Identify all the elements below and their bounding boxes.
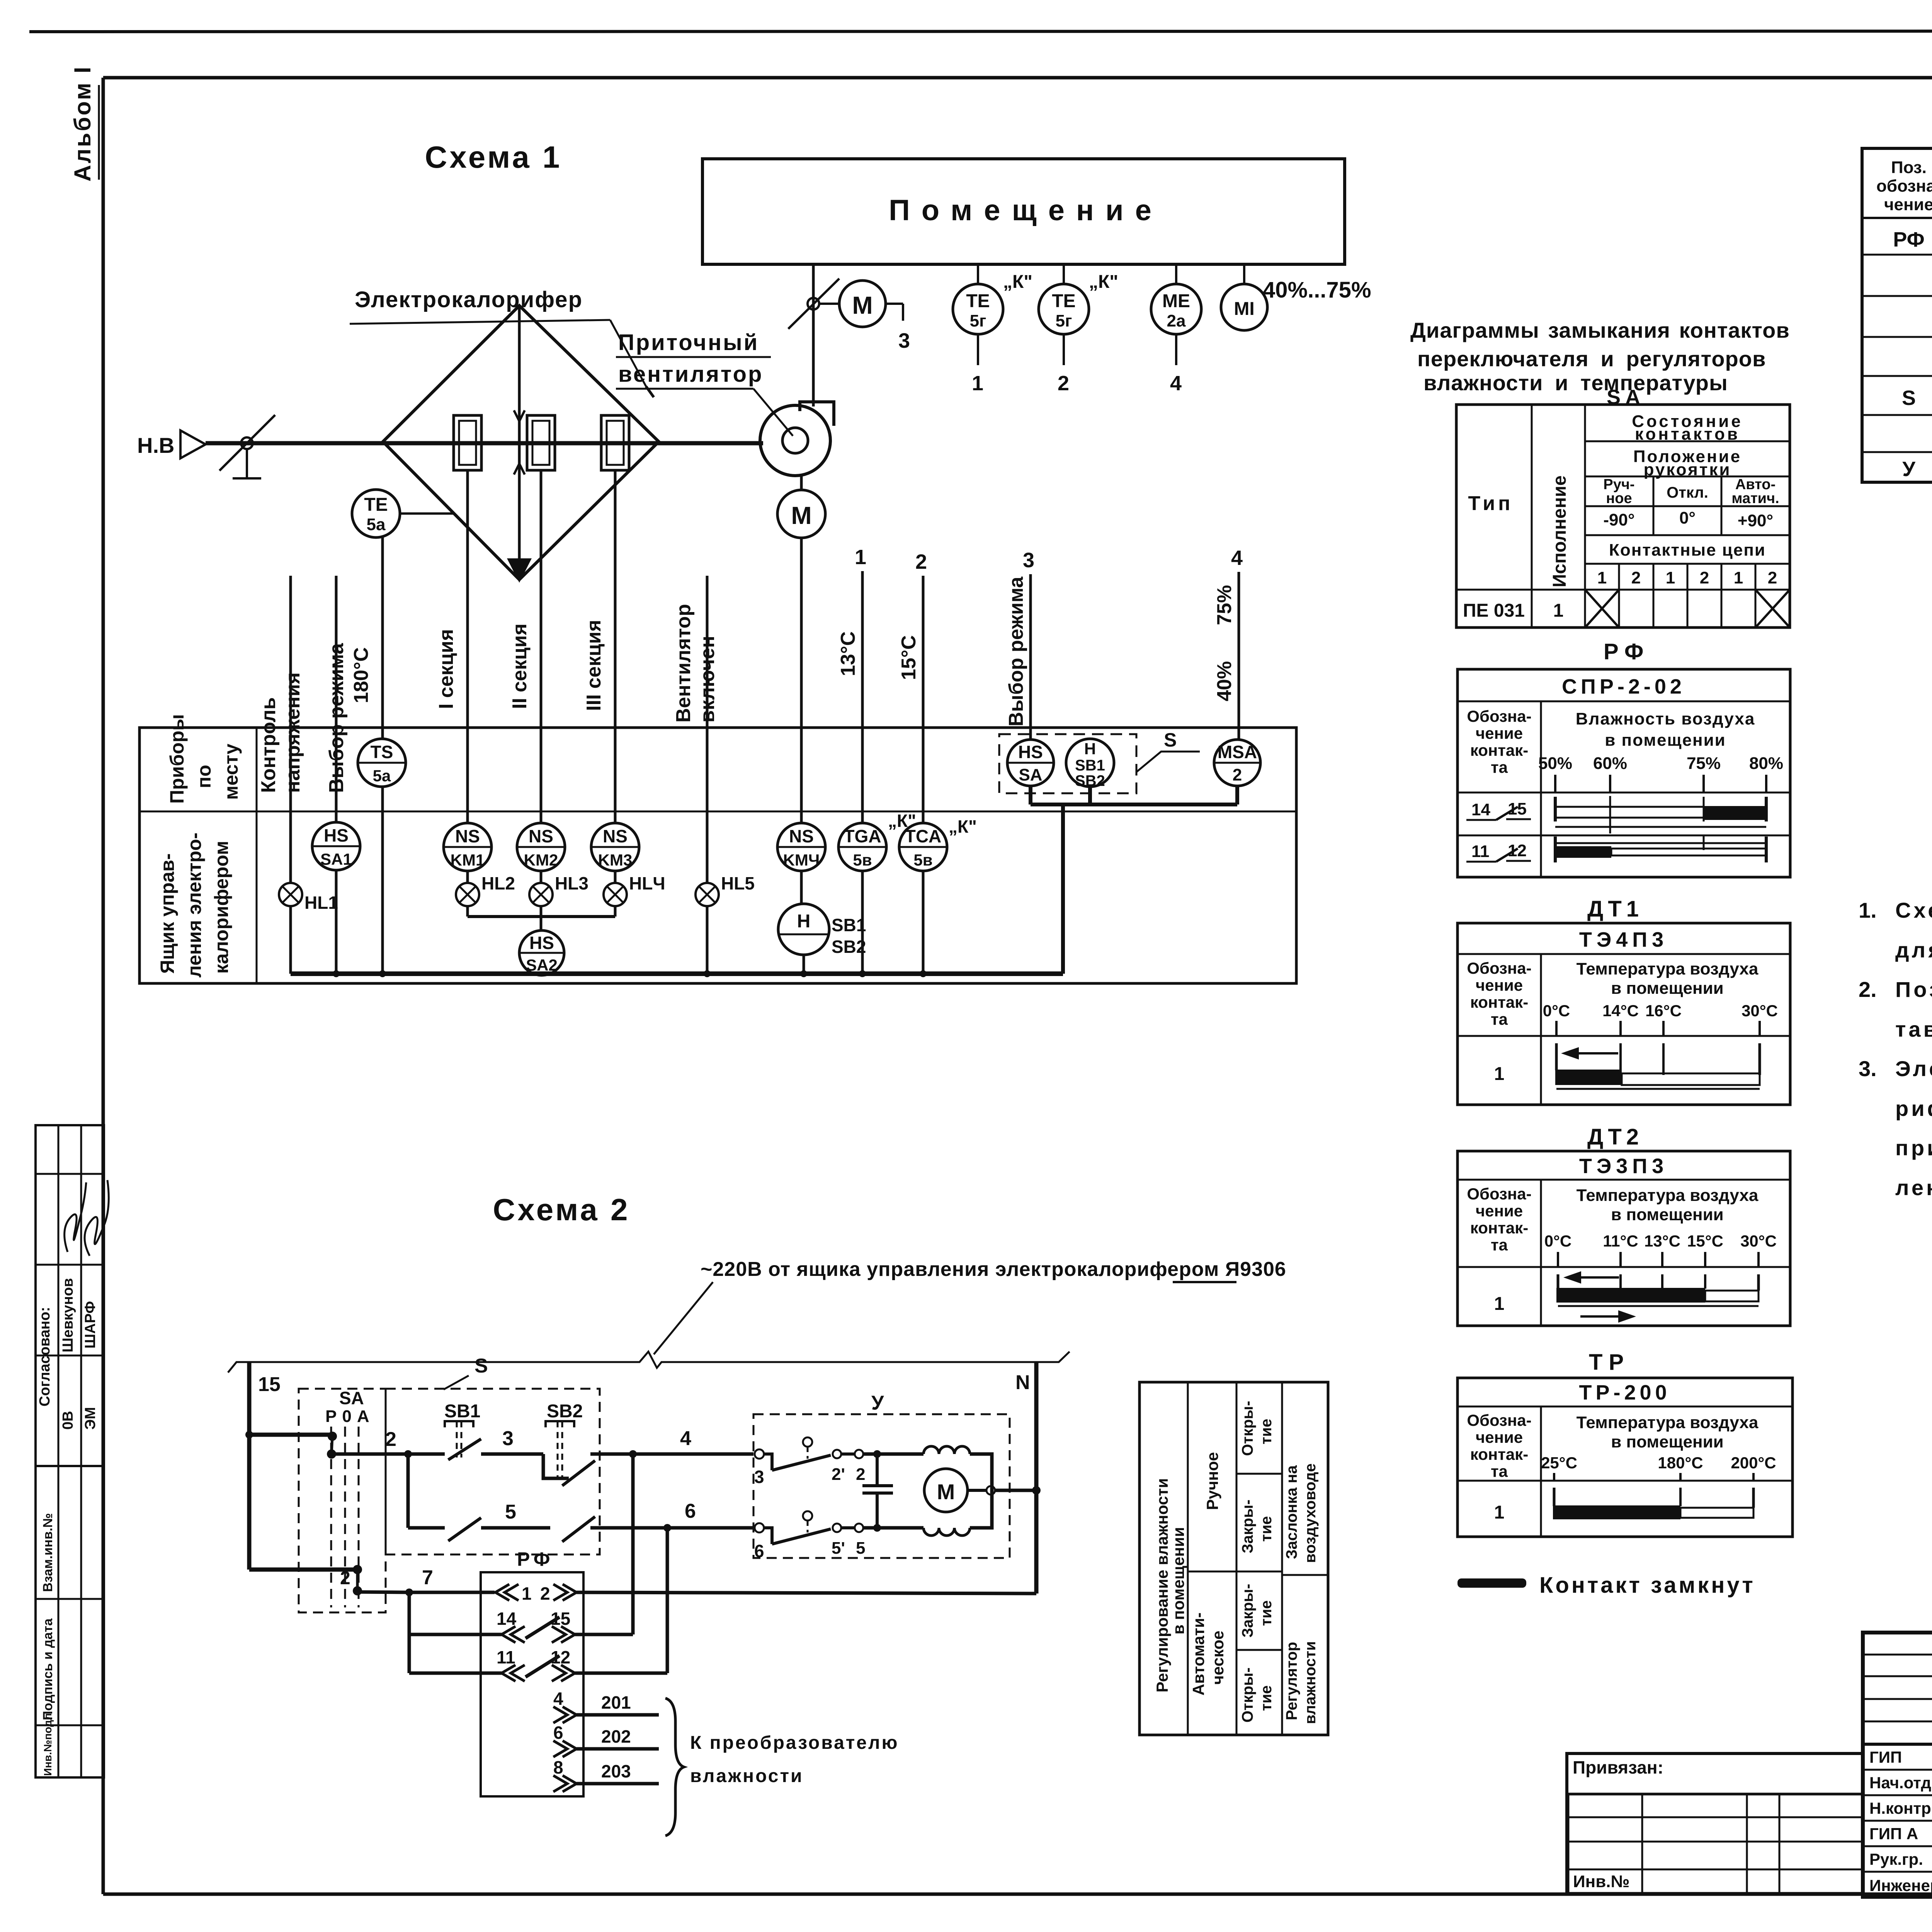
lamp HL3 [529, 873, 588, 917]
svg-text:М: М [791, 502, 811, 529]
svg-text:180°С: 180°С [1658, 1454, 1703, 1472]
lamp HL4 [604, 873, 665, 917]
svg-text:Схема 1: Схема 1 [425, 140, 562, 174]
supply fan [760, 402, 834, 476]
parts row S [1902, 386, 1932, 410]
svg-text:1: 1 [1597, 568, 1607, 587]
svg-text:5г: 5г [1056, 311, 1072, 330]
svg-text:4: 4 [553, 1689, 563, 1709]
lamp HL1 [279, 883, 338, 974]
room indicator MI [1221, 264, 1371, 330]
svg-text:6: 6 [754, 1541, 764, 1561]
svg-text:Температура воздуха: Температура воздуха [1577, 1186, 1759, 1205]
svg-text:ГИП: ГИП [1869, 1748, 1902, 1766]
svg-text:2: 2 [540, 1583, 550, 1604]
svg-text:SA: SA [339, 1388, 364, 1408]
svg-text:MSA: MSA [1218, 742, 1257, 762]
У lower limit contact 6-5'-5 [754, 1511, 923, 1561]
svg-text:Температура воздуха: Температура воздуха [1577, 959, 1759, 978]
actuator motor windings [923, 1446, 992, 1536]
svg-text:3: 3 [502, 1427, 514, 1450]
svg-text:0°С: 0°С [1544, 1232, 1572, 1250]
svg-text:влажности: влажности [1302, 1641, 1319, 1724]
svg-text:Выбор режима: Выбор режима [325, 643, 348, 793]
svg-text:переключателя и регуляторов: переключателя и регуляторов [1417, 347, 1766, 371]
svg-text:14: 14 [497, 1609, 517, 1629]
svg-text:1: 1 [1494, 1064, 1505, 1084]
svg-text:HL2: HL2 [481, 873, 515, 893]
lamp HL5 [696, 873, 755, 974]
wire 3 / Выбор режима (right) [1005, 549, 1034, 740]
svg-text:2: 2 [1631, 568, 1641, 587]
table row label Приборы по месту [166, 714, 242, 804]
svg-text:S: S [1164, 729, 1177, 751]
svg-text:Автомати-: Автомати- [1189, 1612, 1207, 1696]
wire Контроль напряжения column [257, 576, 304, 883]
svg-text:203: 203 [601, 1761, 631, 1781]
SA pole 2 contact [340, 1565, 409, 1595]
contactor NS KM4 [777, 823, 825, 904]
notes text [1859, 898, 1932, 1200]
svg-text:II секция: II секция [509, 624, 531, 709]
svg-text:Тип: Тип [1468, 492, 1513, 515]
svg-text:Электрокалорифер: Электрокалорифер [355, 287, 583, 312]
switch HS SA2 [519, 917, 564, 975]
svg-text:Контакт замкнут: Контакт замкнут [1539, 1573, 1755, 1598]
svg-text:Схемы 1, 2 выполнены в общем в: Схемы 1, 2 выполнены в общем виде и прим… [1895, 898, 1932, 922]
pushbutton H SB1 SB2 (field) [1066, 739, 1114, 789]
svg-text:5г: 5г [970, 311, 986, 330]
svg-text:1: 1 [1494, 1502, 1505, 1523]
svg-text:Закры-: Закры- [1239, 1500, 1256, 1553]
parts list table [1862, 148, 1932, 482]
inlet damper on duct [219, 415, 275, 478]
svg-text:HL3: HL3 [555, 873, 588, 893]
svg-text:Контроль: Контроль [257, 697, 280, 793]
svg-text:12: 12 [551, 1647, 570, 1667]
svg-text:SA: SA [1019, 765, 1042, 784]
room sensor ME 2a [1151, 264, 1201, 395]
svg-text:25°С: 25°С [1541, 1454, 1577, 1472]
label Электрокалорифер with leader [350, 287, 654, 397]
svg-text:Вентилятор: Вентилятор [672, 604, 695, 723]
svg-text:Откл.: Откл. [1667, 484, 1708, 501]
svg-text:SB2: SB2 [832, 937, 866, 957]
svg-text:Ящик управ-: Ящик управ- [156, 853, 178, 974]
svg-text:3: 3 [1023, 549, 1034, 572]
label 220V supply [654, 1258, 1286, 1354]
wire fan motor to NS KM4 [800, 538, 803, 823]
wire 180°C column [350, 537, 383, 739]
room sensor TE 5г (2) [1039, 264, 1118, 395]
svg-text:1: 1 [972, 372, 983, 395]
svg-text:Исполнение: Исполнение [1549, 475, 1570, 587]
heater section I element [454, 415, 481, 470]
svg-text:S: S [1902, 386, 1916, 410]
svg-text:60%: 60% [1593, 754, 1627, 773]
svg-text:15°С: 15°С [898, 635, 920, 680]
svg-text:4: 4 [680, 1427, 691, 1450]
pushbutton H SB1 SB2 (cabinet) [778, 904, 866, 974]
svg-text:Согласовано:: Согласовано: [37, 1307, 53, 1406]
svg-text:0°: 0° [1679, 509, 1696, 527]
node 2 wire [332, 1428, 445, 1458]
svg-text:~220В от ящика управления элек: ~220В от ящика управления электрокалориф… [701, 1258, 1286, 1281]
svg-text:ТР: ТР [1589, 1350, 1630, 1375]
svg-text:2.: 2. [1859, 977, 1877, 1002]
svg-text:3: 3 [898, 329, 910, 352]
S dashed box [386, 1355, 600, 1554]
svg-text:HL5: HL5 [721, 873, 755, 893]
svg-text:75%: 75% [1213, 585, 1236, 625]
svg-text:РФ: РФ [1893, 228, 1924, 251]
svg-text:13°С: 13°С [1644, 1232, 1680, 1250]
svg-text:H: H [797, 911, 811, 932]
svg-text:SB1: SB1 [444, 1401, 480, 1422]
svg-text:201: 201 [601, 1692, 631, 1713]
svg-text:0°С: 0°С [1543, 1002, 1570, 1020]
svg-text:HS: HS [529, 933, 554, 953]
РФ relay box [481, 1548, 583, 1796]
svg-text:та: та [1491, 1462, 1508, 1480]
svg-text:1: 1 [855, 546, 866, 569]
wire Выбор режима column (left) [325, 576, 348, 822]
svg-text:контак-: контак- [1470, 1219, 1528, 1237]
relay TCA 5в [899, 816, 977, 974]
svg-text:HS: HS [324, 825, 349, 845]
wire I секция [435, 470, 468, 823]
svg-text:обозна-: обозна- [1876, 177, 1932, 196]
damper actuator M (top) [819, 281, 910, 352]
thermostat diagram ТЭ4П3 [1458, 923, 1790, 1105]
node Н.В fresh air inlet [137, 430, 206, 458]
svg-text:Закры-: Закры- [1239, 1584, 1256, 1638]
room box Помещение [702, 159, 1345, 264]
node 4 junction [629, 1427, 753, 1634]
svg-text:„К": „К" [1003, 272, 1032, 292]
svg-text:15: 15 [258, 1373, 281, 1396]
pushbutton SB1 [444, 1401, 543, 1460]
svg-text:Поз.: Поз. [1891, 158, 1927, 177]
svg-text:Инв.№: Инв.№ [1573, 1872, 1630, 1891]
humidity regulator diagram СПР-2-02 [1458, 669, 1790, 877]
wire III секция [583, 470, 615, 823]
svg-text:ТЭ3П3: ТЭ3П3 [1579, 1155, 1668, 1178]
svg-text:5': 5' [832, 1539, 845, 1558]
lamp connector wire [468, 915, 615, 918]
РФ contact 11-12 row [1466, 835, 1766, 862]
svg-text:Обозна-: Обозна- [1467, 1411, 1531, 1429]
svg-text:тавляются комплектно с электро: тавляются комплектно с электрокалориферо… [1895, 1017, 1932, 1041]
wire 4 / 40% 75% [1213, 546, 1243, 740]
brace and label К преобразователю влажности [665, 1698, 899, 1836]
svg-text:Рук.гр.: Рук.гр. [1869, 1850, 1923, 1868]
svg-text:NS: NS [455, 826, 480, 846]
table row label Ящик управления электрокалорифером [156, 833, 232, 978]
svg-text:та: та [1491, 1010, 1508, 1028]
svg-text:ческое: ческое [1209, 1631, 1227, 1685]
heater section III element [601, 415, 629, 470]
svg-text:5a: 5a [367, 515, 386, 534]
svg-text:чение: чение [1476, 1428, 1523, 1446]
svg-text:У: У [1902, 457, 1916, 481]
svg-text:Обозна-: Обозна- [1467, 707, 1531, 725]
wire 15 (phase) [245, 1362, 356, 1570]
РФ pin 4 / wire 201 [553, 1689, 659, 1723]
svg-text:5: 5 [505, 1501, 516, 1523]
РФ contact 1-2 row [495, 1583, 1036, 1604]
svg-text:TE: TE [966, 291, 990, 311]
heater center arrow line [507, 306, 532, 583]
svg-text:202: 202 [601, 1726, 631, 1747]
svg-text:та: та [1491, 1236, 1508, 1254]
svg-text:13°С: 13°С [837, 631, 859, 676]
svg-text:HLЧ: HLЧ [629, 873, 665, 893]
svg-text:TGA: TGA [844, 826, 881, 846]
actuator У dashed box [753, 1392, 1010, 1558]
svg-text:5в: 5в [853, 851, 872, 869]
svg-text:15°С: 15°С [1687, 1232, 1723, 1250]
switch TS 5a [358, 739, 406, 974]
svg-text:чение: чение [1884, 195, 1932, 214]
svg-text:11°С: 11°С [1603, 1232, 1638, 1250]
left margin stamp block A [36, 1125, 109, 1466]
svg-text:Влажность воздуха: Влажность воздуха [1576, 709, 1755, 728]
supply riser wire from room to fan [812, 264, 815, 406]
svg-text:в помещении: в помещении [1169, 1527, 1187, 1634]
svg-text:TE: TE [364, 495, 388, 515]
svg-text:в помещении: в помещении [1611, 1432, 1723, 1451]
label ДТ2 [1587, 1124, 1643, 1150]
svg-text:влажности и температуры: влажности и температуры [1423, 371, 1728, 395]
svg-text:KM3: KM3 [598, 851, 633, 869]
svg-text:тие: тие [1258, 1516, 1275, 1542]
svg-text:Откры-: Откры- [1239, 1401, 1256, 1456]
svg-text:NS: NS [789, 826, 814, 846]
svg-text:2: 2 [856, 1465, 865, 1484]
svg-text:рукоятки: рукоятки [1644, 460, 1731, 479]
room sensor TE 5г (1) [953, 264, 1032, 395]
svg-text:1: 1 [1666, 568, 1675, 587]
svg-text:12: 12 [1508, 841, 1527, 860]
svg-text:SB1: SB1 [832, 915, 866, 935]
svg-text:воздуховоде: воздуховоде [1302, 1463, 1319, 1563]
svg-text:15: 15 [1508, 799, 1527, 818]
svg-text:16°С: 16°С [1645, 1002, 1682, 1020]
svg-text:15: 15 [551, 1609, 570, 1629]
svg-text:+90°: +90° [1738, 511, 1773, 530]
wire 2 / 15°C [898, 550, 927, 823]
svg-text:ME: ME [1162, 291, 1190, 311]
wire II секция [509, 470, 541, 823]
svg-text:контактов: контактов [1635, 425, 1740, 444]
svg-text:Н.контр.: Н.контр. [1869, 1799, 1932, 1817]
relay TGA 5в [838, 811, 916, 974]
svg-text:месту: месту [220, 743, 242, 800]
svg-text:SA1: SA1 [320, 850, 352, 868]
svg-text:„К": „К" [1089, 272, 1118, 292]
svg-text:Электрическая схема управления: Электрическая схема управления электрока… [1895, 1056, 1932, 1081]
svg-text:HS: HS [1018, 742, 1043, 762]
svg-text:Помещение: Помещение [889, 194, 1163, 227]
svg-text:200°С: 200°С [1731, 1454, 1776, 1472]
wire 1 / 13°C [837, 546, 866, 823]
wire Вентилятор включен [672, 576, 719, 883]
svg-text:5: 5 [856, 1539, 865, 1558]
heater section II element [527, 415, 555, 470]
svg-text:по: по [193, 765, 215, 788]
svg-text:80%: 80% [1749, 754, 1783, 773]
title Схема 1 [425, 140, 562, 174]
svg-text:М: М [937, 1480, 955, 1504]
svg-text:М: М [852, 291, 872, 319]
SA pole 1 contact [327, 1432, 337, 1459]
svg-text:1: 1 [522, 1583, 532, 1604]
svg-text:KM2: KM2 [524, 851, 558, 869]
svg-text:Регулирование влажности: Регулирование влажности [1153, 1478, 1171, 1692]
У upper limit contact 3-2'-2 [754, 1437, 923, 1487]
svg-text:„К": „К" [949, 816, 977, 837]
svg-text:чение: чение [1476, 1202, 1523, 1220]
title block signatures column texts [1869, 1748, 1932, 1895]
svg-text:S: S [474, 1355, 488, 1377]
svg-text:калорифером: калорифером [211, 841, 232, 974]
dashed box S around HS SA / H SB1 SB2 [999, 729, 1200, 793]
label ТР [1589, 1350, 1630, 1375]
svg-text:8: 8 [553, 1757, 563, 1777]
svg-text:3: 3 [754, 1467, 764, 1487]
lamp HL2 [456, 873, 515, 917]
node 3 [502, 1427, 514, 1450]
svg-text:в помещении: в помещении [1611, 979, 1723, 998]
svg-text:чение: чение [1476, 976, 1523, 994]
svg-text:TS: TS [371, 742, 393, 762]
svg-text:11: 11 [497, 1647, 515, 1667]
svg-text:KM1: KM1 [451, 851, 485, 869]
duct sensor TE 5a [352, 490, 454, 537]
svg-text:контак-: контак- [1470, 1445, 1528, 1463]
svg-text:Обозна-: Обозна- [1467, 959, 1531, 977]
svg-text:Обозна-: Обозна- [1467, 1185, 1531, 1203]
svg-text:ШАРФ: ШАРФ [82, 1301, 99, 1349]
motor capacitor [862, 1454, 893, 1528]
svg-text:ТР-200: ТР-200 [1579, 1381, 1670, 1404]
svg-text:К преобразователю: К преобразователю [690, 1733, 899, 1753]
switch SA dashed box [299, 1388, 386, 1612]
svg-text:0В: 0В [60, 1411, 76, 1430]
svg-text:Позиции приборов обозначенные: Позиции приборов обозначенные буквой „К"… [1895, 977, 1932, 1002]
diagrams heading [1410, 318, 1790, 395]
bottom bus wire [291, 970, 1063, 977]
sheet top edge line [29, 31, 1932, 32]
svg-text:Заслонка на: Заслонка на [1283, 1465, 1300, 1559]
svg-text:в помещении: в помещении [1605, 731, 1726, 750]
svg-text:ГИП А: ГИП А [1869, 1825, 1918, 1843]
svg-text:Привязан:: Привязан: [1573, 1757, 1663, 1777]
svg-text:4: 4 [1231, 546, 1243, 570]
svg-text:SB1: SB1 [1075, 757, 1105, 774]
svg-text:4: 4 [1170, 372, 1182, 395]
label ДТ1 [1587, 896, 1643, 922]
svg-text:Температура воздуха: Температура воздуха [1577, 1413, 1759, 1432]
svg-text:7: 7 [422, 1566, 433, 1589]
duct damper at riser [788, 279, 839, 329]
contactor NS KM2 [517, 823, 565, 883]
switch HS SA (field) [1007, 740, 1054, 786]
svg-text:40%: 40% [1213, 661, 1236, 701]
main duct line [206, 441, 763, 446]
svg-text:ТЭ4П3: ТЭ4П3 [1579, 928, 1668, 951]
svg-text:в помещении: в помещении [1611, 1205, 1723, 1224]
svg-text:Подпись и дата: Подпись и дата [41, 1618, 55, 1720]
svg-text:Нач.отд: Нач.отд [1869, 1774, 1931, 1792]
svg-text:2: 2 [1768, 568, 1777, 587]
svg-text:приведенной в документации на: приведенной в документации на ящики упра… [1895, 1136, 1932, 1160]
svg-text:MI: MI [1234, 299, 1254, 319]
Привязан box [1567, 1753, 1863, 1894]
svg-text:влажности: влажности [690, 1766, 803, 1786]
svg-text:6: 6 [553, 1723, 563, 1743]
svg-text:KMЧ: KMЧ [783, 851, 820, 869]
svg-text:50%: 50% [1538, 754, 1572, 773]
svg-text:ления электро-: ления электро- [184, 833, 205, 978]
thick connector wires for field devices [1031, 786, 1237, 974]
svg-text:ДТ2: ДТ2 [1587, 1124, 1643, 1150]
svg-text:5a: 5a [373, 767, 391, 785]
parts row У [1902, 455, 1932, 485]
svg-text:Приточный: Приточный [618, 330, 759, 355]
contactor NS KM1 [444, 823, 492, 883]
svg-text:включен: включен [696, 636, 719, 723]
svg-text:тие: тие [1258, 1685, 1275, 1711]
svg-text:напряжения: напряжения [282, 672, 304, 793]
svg-text:СПР-2-02: СПР-2-02 [1562, 675, 1685, 698]
label Приточный вентилятор with leader [616, 330, 793, 436]
svg-text:HL1: HL1 [304, 893, 338, 913]
svg-text:1.: 1. [1859, 898, 1877, 922]
svg-text:11: 11 [1471, 842, 1490, 861]
svg-text:30°С: 30°С [1742, 1002, 1778, 1020]
selector MSA 2 [1214, 740, 1260, 786]
svg-text:Альбом I: Альбом I [70, 65, 95, 182]
svg-text:SA2: SA2 [526, 956, 558, 974]
svg-text:1: 1 [1494, 1294, 1505, 1314]
РФ contact 14-15 row [1466, 796, 1766, 833]
pushbutton SB2 [543, 1401, 633, 1486]
svg-text:Диаграммы замыкания контактов: Диаграммы замыкания контактов [1410, 318, 1790, 342]
svg-text:1: 1 [1553, 600, 1564, 621]
svg-text:для приточной системы П1.: для приточной системы П1. [1895, 938, 1932, 962]
svg-text:I секция: I секция [435, 629, 457, 709]
thermostat diagram ТЭ3П3 [1458, 1151, 1790, 1326]
svg-text:NS: NS [603, 826, 628, 846]
РФ contact 11-12 row [409, 1647, 667, 1681]
svg-text:2: 2 [1700, 568, 1709, 587]
РФ pin 6 / wire 202 [553, 1723, 659, 1757]
svg-text:2: 2 [340, 1568, 350, 1588]
left margin stamp block B [36, 1466, 104, 1777]
svg-text:РФ: РФ [1604, 639, 1650, 664]
title Схема 2 [493, 1192, 630, 1227]
svg-text:рифером принята по разработке: рифером принята по разработке ВНИИЭТО [1895, 1096, 1932, 1121]
svg-text:Инженер: Инженер [1869, 1876, 1932, 1895]
svg-text:14: 14 [1471, 800, 1490, 819]
svg-text:30°С: 30°С [1740, 1232, 1777, 1250]
svg-text:ДТ1: ДТ1 [1587, 896, 1643, 922]
electric heater diamond [383, 306, 659, 580]
svg-text:Схема 2: Схема 2 [493, 1192, 630, 1227]
switch SA contact table ПЕ 031 [1456, 405, 1790, 628]
